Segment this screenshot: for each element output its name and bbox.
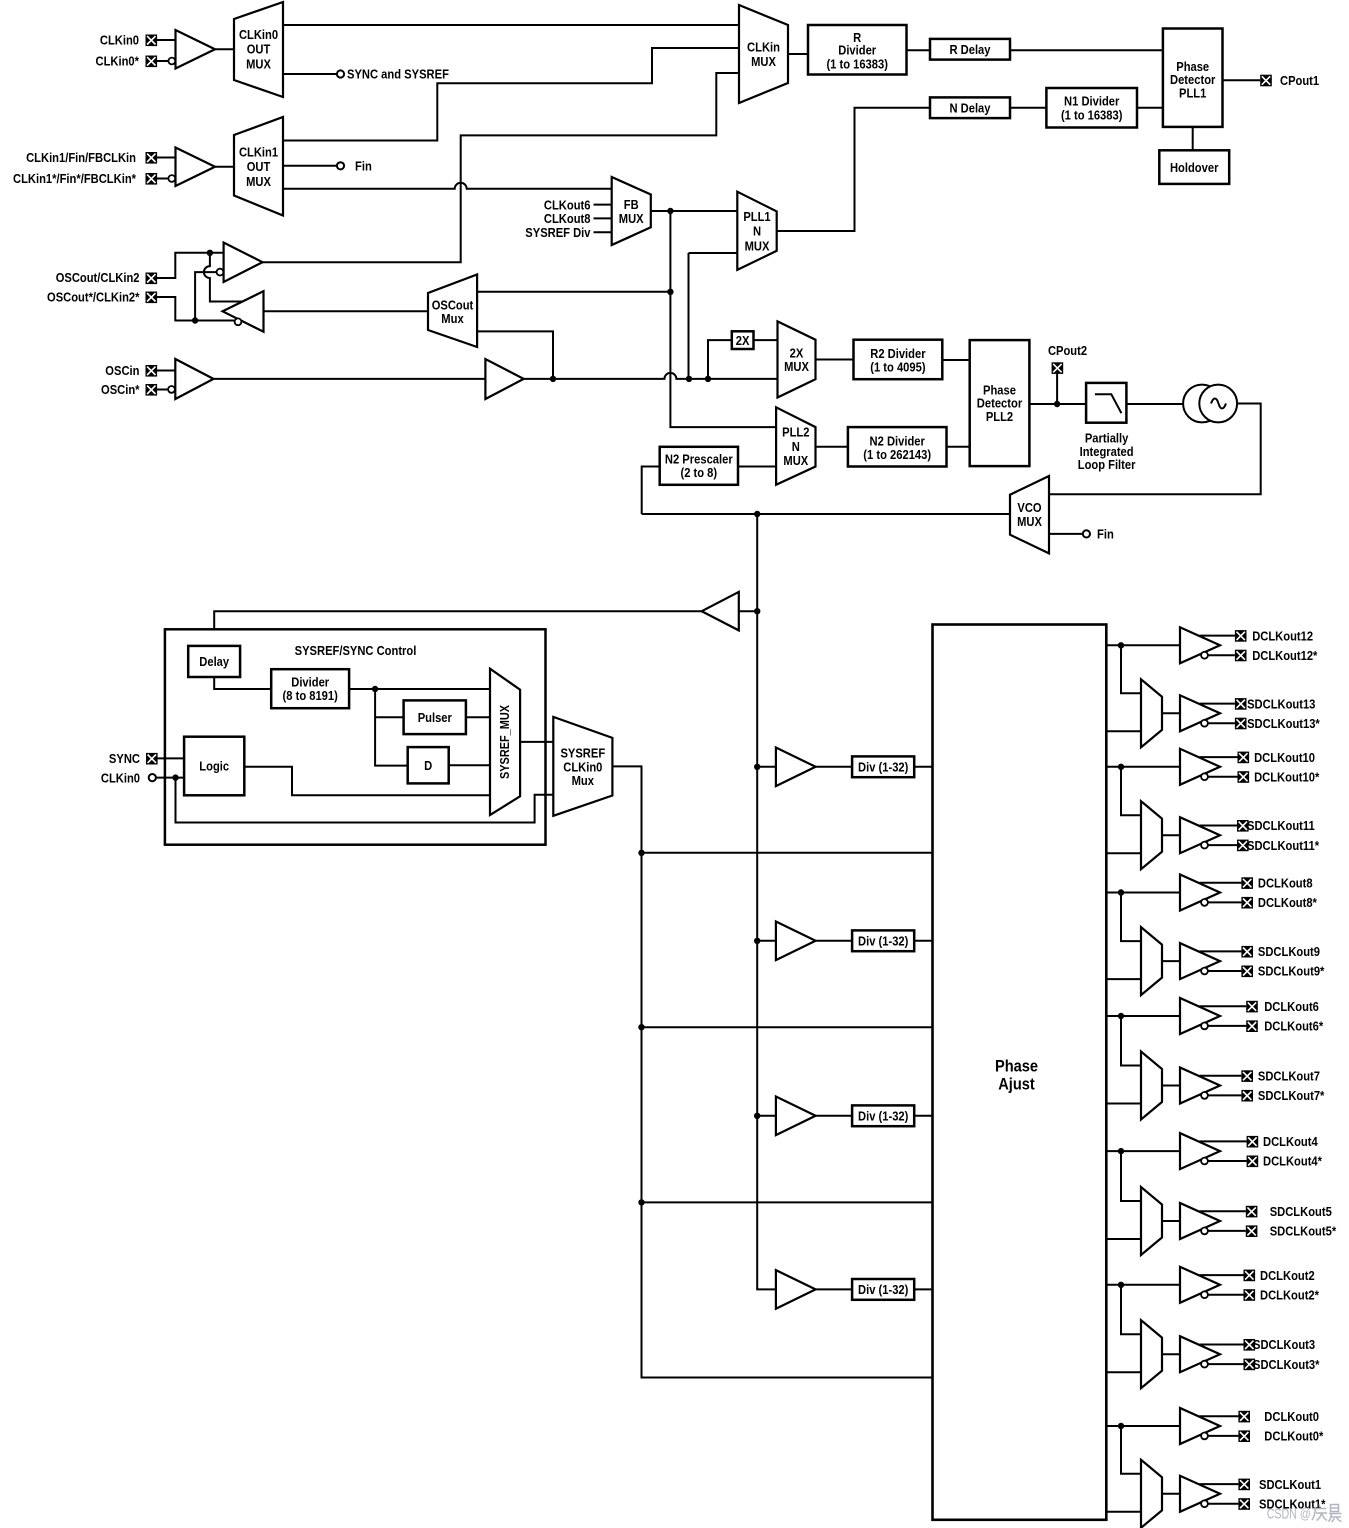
wire N2 Prescaler to PLL2 N MUX xyxy=(738,466,776,468)
mux PLL1 N MUX xyxy=(737,192,776,270)
wire CLKin0 OUT MUX top output to CLKin MUX xyxy=(283,24,739,26)
SYSREF/SYNC Control box xyxy=(165,629,546,844)
wire DCLKout8* negative output xyxy=(1208,901,1241,903)
wire FB MUX output to PLL1 N MUX xyxy=(651,210,738,212)
loop filter block xyxy=(1086,383,1126,423)
terminal Fin xyxy=(337,159,372,174)
svg-text:DCLKout12*: DCLKout12* xyxy=(1252,648,1318,663)
svg-text:OSCout*/CLKin2*: OSCout*/CLKin2* xyxy=(47,290,140,305)
wire Pulser to SYSREF_MUX xyxy=(466,716,490,718)
svg-text:SDCLKout5: SDCLKout5 xyxy=(1270,1204,1332,1219)
buffer SDCLKout9 xyxy=(1180,943,1220,979)
pad SDCLKout7* xyxy=(1241,1088,1325,1103)
pad CLKin0 xyxy=(100,33,157,48)
wire DCLKout10* negative output xyxy=(1208,776,1237,778)
Holdover xyxy=(1159,150,1229,184)
buffer SYSREF feed (left pointing) xyxy=(702,592,758,631)
mux SDCLKout1 xyxy=(1141,1460,1162,1528)
Div (1-32) row 2 xyxy=(852,930,914,951)
wire Div (1-32) row 2 to Phase Ajust xyxy=(914,940,932,942)
wire SYNC and SYSREF output xyxy=(283,73,337,75)
svg-text:SDCLKout11*: SDCLKout11* xyxy=(1247,838,1320,853)
wire OSCin pad to buffer xyxy=(157,370,176,372)
svg-text:(1 to 16383): (1 to 16383) xyxy=(1061,107,1123,122)
wire VCO output to VCO MUX xyxy=(1049,404,1261,495)
wire SDCLKout11 positive output xyxy=(1200,825,1238,827)
pad DCLKout4* xyxy=(1247,1154,1323,1169)
pad DCLKout8 xyxy=(1241,876,1312,891)
mux SDCLKout9 xyxy=(1141,927,1162,995)
wire buffer to CLKin1 OUT MUX xyxy=(215,166,234,168)
svg-text:CLKout8: CLKout8 xyxy=(544,211,591,226)
buffer DCLKout4 xyxy=(1180,1133,1220,1169)
svg-text:CPout2: CPout2 xyxy=(1048,343,1087,358)
wire distribution bus vertical xyxy=(757,514,776,1289)
R2 Divider (1 to 4095) xyxy=(854,340,943,380)
terminal Fin (VCO MUX) xyxy=(1083,527,1114,542)
svg-text:PLL2: PLL2 xyxy=(782,425,809,440)
junction on CLKin2 input wire xyxy=(207,250,213,256)
wire DCLKout4* negative output xyxy=(1208,1160,1247,1162)
flip-flop D xyxy=(408,747,449,783)
wire VCO MUX output / distribution net xyxy=(642,513,1010,515)
pad SDCLKout9* xyxy=(1241,964,1325,979)
wire Phase Ajust to DCLKout12 buffer xyxy=(1106,644,1180,646)
wire DCLKout12* negative output xyxy=(1208,654,1235,656)
Logic xyxy=(184,737,244,796)
Pulser xyxy=(404,700,466,734)
svg-text:CLKin0: CLKin0 xyxy=(239,27,278,42)
terminal SYNC and SYSREF xyxy=(337,67,449,82)
svg-text:DCLKout2: DCLKout2 xyxy=(1260,1268,1315,1283)
buffer SDCLKout1 xyxy=(1180,1476,1220,1512)
svg-text:CLKin0: CLKin0 xyxy=(100,33,139,48)
wire CLKin0 pad to buffer xyxy=(157,39,176,41)
wire Phase Ajust to DCLKout6 buffer xyxy=(1106,1015,1180,1017)
svg-text:MUX: MUX xyxy=(751,54,776,69)
junction bus to divider row 3 xyxy=(754,1113,760,1119)
wire DCLKout8 net to SDCLKout9 mux xyxy=(1121,893,1141,942)
wire SDCLKout13* negative output xyxy=(1208,722,1235,724)
wire N2 Divider to Phase Detector PLL2 xyxy=(947,446,970,448)
svg-text:(2 to 8): (2 to 8) xyxy=(681,465,718,480)
wire Phase Detector PLL1 to Holdover xyxy=(1192,127,1194,150)
buffer SDCLKout11 xyxy=(1180,817,1220,853)
wire SDCLKout3* negative output xyxy=(1208,1363,1243,1365)
stub CLKout6 input xyxy=(544,197,612,212)
wire Phase Ajust to SDCLKout7 mux xyxy=(1106,1103,1141,1105)
svg-text:Phase: Phase xyxy=(995,1056,1038,1075)
wire CLKin0* pad to buffer bubble xyxy=(157,60,169,62)
svg-text:SDCLKout9: SDCLKout9 xyxy=(1258,944,1320,959)
wire DCLKout0 net to SDCLKout1 mux xyxy=(1121,1426,1141,1474)
wire OSCout Mux output to OSCout buffer xyxy=(264,310,429,312)
Phase Detector PLL1 xyxy=(1163,29,1223,127)
wire R Divider to R Delay xyxy=(907,49,931,51)
svg-text:SDCLKout13: SDCLKout13 xyxy=(1247,696,1315,711)
junction DCLKout12 net xyxy=(1118,642,1124,648)
input buffer CLKin0 xyxy=(168,30,215,69)
svg-text:DCLKout12: DCLKout12 xyxy=(1252,628,1313,643)
wire SYSREF row 2 xyxy=(642,1026,933,1028)
wire CLKin1 OUT MUX bottom output to FB MUX (hops over vertical) xyxy=(283,183,612,189)
buffer DCLKout10 xyxy=(1180,749,1220,785)
wire R2 Divider to Phase Detector PLL2 xyxy=(942,359,969,361)
wire D to SYSREF_MUX xyxy=(449,764,490,766)
pad DCLKout6* xyxy=(1246,1019,1324,1034)
svg-text:SYSREF Div: SYSREF Div xyxy=(525,225,591,240)
wire bus to buffer row 1 xyxy=(757,766,776,768)
buffer SDCLKout7 xyxy=(1180,1068,1220,1104)
svg-text:CLKin1*/Fin*/FBCLKin*: CLKin1*/Fin*/FBCLKin* xyxy=(13,171,137,186)
wire buffer to Div (1-32) row 2 xyxy=(816,940,853,942)
wire FB net vertical to PLL2 N MUX input 1 xyxy=(670,211,776,427)
pad OSCin* xyxy=(101,382,157,397)
mux SDCLKout13 xyxy=(1141,679,1162,747)
wire loop filter to VCO xyxy=(1126,403,1183,405)
mux OSCout Mux xyxy=(428,275,477,348)
junction divider output xyxy=(372,686,378,692)
svg-text:SDCLKout11: SDCLKout11 xyxy=(1247,818,1315,833)
junction DCLKout10 net xyxy=(1118,764,1124,770)
svg-text:Logic: Logic xyxy=(199,759,229,774)
wire CLKin0 bypass to SYSREF CLKin0 Mux xyxy=(176,778,554,823)
pad SDCLKout9 xyxy=(1241,944,1320,959)
pad DCLKout8* xyxy=(1241,895,1317,910)
wire SDCLKout7* negative output xyxy=(1208,1094,1241,1096)
svg-text:OUT: OUT xyxy=(247,42,271,57)
wire bus to buffer row 2 xyxy=(757,940,776,942)
pad SDCLKout1* xyxy=(1238,1496,1326,1511)
R Divider (1 to 16383) xyxy=(808,25,907,75)
Div (1-32) row 1 xyxy=(852,756,914,777)
buffer DCLKout12 xyxy=(1180,627,1220,663)
svg-text:PLL1: PLL1 xyxy=(743,209,770,224)
buffer divider row 3 xyxy=(776,1097,816,1136)
svg-text:SDCLKout3*: SDCLKout3* xyxy=(1253,1357,1320,1372)
svg-text:(1 to 4095): (1 to 4095) xyxy=(870,360,925,375)
junction on CLKin2* wire xyxy=(192,317,198,323)
svg-text:Ajust: Ajust xyxy=(998,1074,1035,1093)
svg-text:Loop Filter: Loop Filter xyxy=(1078,457,1136,472)
wire SDCLKout11 mux to buffer xyxy=(1162,834,1180,836)
mux PLL2 N MUX xyxy=(776,407,815,485)
wire Phase Ajust to DCLKout10 buffer xyxy=(1106,766,1180,768)
svg-text:N: N xyxy=(792,439,800,454)
wire DCLKout6 positive output xyxy=(1200,1005,1247,1007)
wire DCLKout6* negative output xyxy=(1208,1025,1246,1027)
junction OSCin tap xyxy=(550,376,556,382)
svg-text:OUT: OUT xyxy=(247,159,271,174)
pad CLKin1/Fin/FBCLKin xyxy=(26,150,157,165)
buffer SDCLKout13 xyxy=(1180,695,1220,731)
pad CPout2 xyxy=(1048,343,1087,374)
N1 Divider (1 to 16383) xyxy=(1046,88,1137,128)
wire divider branch to Pulser and D xyxy=(375,689,408,766)
buffer DCLKout6 xyxy=(1180,998,1220,1034)
Phase Detector PLL2 xyxy=(970,340,1030,466)
wire Div (1-32) row 3 to Phase Ajust xyxy=(914,1115,932,1117)
N2 Prescaler (2 to 8) xyxy=(660,447,738,485)
wire buffer to Div (1-32) row 4 xyxy=(816,1288,853,1290)
svg-text:DCLKout8: DCLKout8 xyxy=(1258,876,1313,891)
svg-text:CLKin1/Fin/FBCLKin: CLKin1/Fin/FBCLKin xyxy=(26,150,136,165)
wire OSCout Mux input 1 from FB net xyxy=(477,291,670,293)
svg-text:Fin: Fin xyxy=(1097,527,1114,542)
buffer SDCLKout5 xyxy=(1180,1203,1220,1239)
pad DCLKout6 xyxy=(1246,999,1319,1014)
svg-text:DCLKout10: DCLKout10 xyxy=(1254,750,1315,765)
svg-text:FB: FB xyxy=(624,197,639,212)
wire Div (1-32) row 4 to Phase Ajust xyxy=(914,1288,932,1290)
wire SDCLKout9* negative output xyxy=(1208,970,1241,972)
wire CLKin1* pad to buffer bubble xyxy=(157,178,169,180)
svg-text:SDCLKout9*: SDCLKout9* xyxy=(1258,964,1325,979)
svg-text:Div (1-32): Div (1-32) xyxy=(858,760,908,775)
Div (1-32) row 3 xyxy=(852,1105,914,1126)
Divider (8 to 8191) xyxy=(271,669,349,708)
stub SYSREF Div input xyxy=(525,225,611,240)
wire Phase Ajust to DCLKout4 buffer xyxy=(1106,1150,1180,1152)
wire SDCLKout3 positive output xyxy=(1200,1344,1244,1346)
wire DCLKout4 net to SDCLKout5 mux xyxy=(1121,1151,1141,1201)
doubler 2X xyxy=(732,331,754,349)
svg-text:DCLKout2*: DCLKout2* xyxy=(1260,1287,1320,1302)
stub CLKout8 input xyxy=(544,211,612,226)
pad DCLKout4 xyxy=(1247,1134,1319,1149)
svg-text:OSCin*: OSCin* xyxy=(101,382,140,397)
Phase Ajust block xyxy=(933,625,1107,1520)
wire bus to buffer row 3 xyxy=(757,1115,776,1117)
svg-text:MUX: MUX xyxy=(783,453,808,468)
watermark CSDN xyxy=(1267,1505,1342,1523)
svg-text:OSCout/CLKin2: OSCout/CLKin2 xyxy=(56,270,140,285)
svg-text:Fin: Fin xyxy=(355,159,372,174)
wire Fin input to VCO MUX xyxy=(1049,533,1083,535)
mux 2X MUX xyxy=(778,321,816,397)
pad DCLKout2 xyxy=(1244,1268,1315,1283)
wire SDCLKout1* negative output xyxy=(1208,1503,1238,1505)
wire Phase Ajust to SDCLKout1 mux xyxy=(1106,1511,1141,1513)
wire Phase Ajust to DCLKout0 buffer xyxy=(1106,1425,1180,1427)
buffer DCLKout0 xyxy=(1180,1408,1220,1444)
wire DCLKout12 positive output xyxy=(1200,635,1235,637)
R Delay xyxy=(930,39,1010,60)
wire buffer to Div (1-32) row 1 xyxy=(816,766,853,768)
wire SDCLKout13 mux to buffer xyxy=(1162,712,1180,714)
junction DCLKout6 net xyxy=(1118,1013,1124,1019)
wire DCLKout2* negative output xyxy=(1208,1294,1243,1296)
svg-text:(1 to 262143): (1 to 262143) xyxy=(863,447,931,462)
svg-text:2X: 2X xyxy=(736,333,750,348)
input buffer OSCin xyxy=(168,359,213,399)
pad DCLKout12 xyxy=(1235,628,1313,643)
pad OSCout*/CLKin2* xyxy=(47,290,157,305)
wire Phase Ajust to DCLKout8 buffer xyxy=(1106,892,1180,894)
wire to CPout2 pad xyxy=(1056,373,1058,404)
wire OSCin net to 2X MUX (hops over FB vertical) xyxy=(524,373,778,379)
wire 2X to 2X MUX xyxy=(754,339,778,341)
junction OSCin to 2X branch xyxy=(705,376,711,382)
terminal CLKin0 (sync input) xyxy=(101,770,156,785)
svg-text:MUX: MUX xyxy=(246,174,271,189)
wire SYSREF feed to Delay xyxy=(214,611,702,646)
pad SDCLKout3* xyxy=(1244,1357,1321,1372)
wire Phase Ajust to SDCLKout9 mux xyxy=(1106,978,1141,980)
svg-text:DCLKout6*: DCLKout6* xyxy=(1264,1019,1324,1034)
svg-text:DCLKout4*: DCLKout4* xyxy=(1263,1154,1323,1169)
junction OSCin to PLL1 N MUX branch xyxy=(686,376,692,382)
buffer OSCin second stage xyxy=(485,359,523,399)
wire SDCLKout13 positive output xyxy=(1200,703,1235,705)
wire PLL2 charge pump output to loop filter xyxy=(1029,403,1086,405)
svg-text:Delay: Delay xyxy=(199,654,229,669)
svg-text:N: N xyxy=(753,224,761,239)
wire CLKin2 buffer output to CLKin MUX input 3 xyxy=(263,73,740,262)
pad DCLKout10 xyxy=(1238,750,1316,765)
wire OSCin to 2X xyxy=(708,340,732,379)
mux SDCLKout5 xyxy=(1141,1187,1162,1255)
svg-text:SDCLKout7: SDCLKout7 xyxy=(1258,1069,1320,1084)
mux SDCLKout3 xyxy=(1141,1320,1162,1388)
pad SDCLKout5 xyxy=(1246,1204,1332,1219)
junction CPout2 xyxy=(1054,401,1060,407)
mux CLKin1 OUT MUX xyxy=(234,117,283,216)
svg-text:CLKin0*: CLKin0* xyxy=(96,54,140,69)
buffer divider row 1 xyxy=(776,748,816,787)
buffer DCLKout8 xyxy=(1180,875,1220,911)
wire feedback to N2 Prescaler xyxy=(642,467,660,515)
svg-text:Div (1-32): Div (1-32) xyxy=(858,934,908,949)
svg-text:MUX: MUX xyxy=(1017,514,1042,529)
buffer divider row 4 xyxy=(776,1270,816,1309)
pad SDCLKout11 xyxy=(1237,818,1315,833)
svg-text:SDCLKout7*: SDCLKout7* xyxy=(1258,1088,1325,1103)
wire Div (1-32) row 1 to Phase Ajust xyxy=(914,766,932,768)
mux SYSREF_MUX xyxy=(490,669,520,815)
buffer SDCLKout3 xyxy=(1180,1336,1220,1372)
wire SDCLKout5 positive output xyxy=(1200,1210,1246,1212)
svg-text:Holdover: Holdover xyxy=(1170,160,1219,175)
svg-text:PLL1: PLL1 xyxy=(1179,85,1206,100)
wire CLKin1 OUT MUX top output to CLKin MUX input 2 xyxy=(283,48,739,141)
output buffer OSCout xyxy=(223,291,264,332)
svg-text:SYSREF/SYNC Control: SYSREF/SYNC Control xyxy=(295,643,417,658)
wire Logic output to SYSREF_MUX xyxy=(244,767,490,796)
wire buffer to Div (1-32) row 3 xyxy=(816,1115,853,1117)
svg-text:D: D xyxy=(424,758,432,773)
svg-text:DCLKout8*: DCLKout8* xyxy=(1258,895,1318,910)
svg-text:Pulser: Pulser xyxy=(418,710,452,725)
svg-text:DCLKout0: DCLKout0 xyxy=(1264,1409,1319,1424)
svg-text:CLKin0: CLKin0 xyxy=(101,770,140,785)
svg-text:DCLKout0*: DCLKout0* xyxy=(1264,1429,1324,1444)
svg-text:R Delay: R Delay xyxy=(950,42,992,57)
pad DCLKout12* xyxy=(1235,648,1318,663)
wire OSCout/CLKin2 pad to buffer input xyxy=(157,253,224,278)
wire N1 Divider to Phase Detector PLL1 xyxy=(1137,107,1163,109)
wire Delay to Divider xyxy=(214,677,271,689)
wire PLL1 N MUX input 2 from OSCin xyxy=(689,253,738,379)
wire DCLKout0 positive output xyxy=(1200,1415,1239,1417)
svg-text:SDCLKout5*: SDCLKout5* xyxy=(1270,1224,1337,1239)
svg-text:SYSREF_MUX: SYSREF_MUX xyxy=(497,705,512,779)
wire DCLKout0* negative output xyxy=(1208,1435,1238,1437)
junction SYSREF row 3 xyxy=(638,1199,644,1205)
svg-text:SYNC and SYSREF: SYNC and SYSREF xyxy=(347,67,449,82)
pad CLKin0* xyxy=(96,54,158,69)
Div (1-32) row 4 xyxy=(852,1279,914,1300)
svg-text:Div (1-32): Div (1-32) xyxy=(858,1282,908,1297)
wire DCLKout8 positive output xyxy=(1200,882,1242,884)
wire Phase Ajust to SDCLKout3 mux xyxy=(1106,1371,1141,1373)
svg-text:N Delay: N Delay xyxy=(950,101,992,116)
mux SYSREF CLKin0 Mux xyxy=(553,717,612,816)
wire OSCin* pad to buffer bubble xyxy=(157,389,168,391)
svg-text:MUX: MUX xyxy=(246,57,271,72)
svg-text:CLKin1: CLKin1 xyxy=(239,145,278,160)
svg-text:PLL2: PLL2 xyxy=(986,409,1013,424)
junction DCLKout4 net xyxy=(1118,1148,1124,1154)
mux FB MUX xyxy=(612,177,651,245)
junction DCLKout2 net xyxy=(1118,1282,1124,1288)
pad SDCLKout5* xyxy=(1246,1224,1337,1239)
wire Fin output xyxy=(283,165,337,167)
wire SYSREF_MUX to SYSREF CLKin0 Mux xyxy=(520,741,553,743)
wire SYSREF row 1 xyxy=(642,852,933,854)
wire DCLKout10 net to SDCLKout11 mux xyxy=(1121,767,1141,815)
svg-text:(8 to 8191): (8 to 8191) xyxy=(283,688,338,703)
wire DCLKout2 net to SDCLKout3 mux xyxy=(1121,1285,1141,1334)
input buffer CLKin1 xyxy=(168,148,215,187)
wire DCLKout2 positive output xyxy=(1200,1274,1244,1276)
wire PLL1 N MUX output to N Delay xyxy=(777,108,930,231)
junction FB net to OSCout Mux xyxy=(667,289,673,295)
wire CLKin0 to Logic xyxy=(156,777,184,779)
pad DCLKout0 xyxy=(1238,1409,1319,1424)
svg-text:SDCLKout3: SDCLKout3 xyxy=(1253,1337,1315,1352)
junction bus to divider row 2 xyxy=(754,938,760,944)
svg-text:Mux: Mux xyxy=(572,773,595,788)
wire PLL2 N MUX to N2 Divider xyxy=(816,446,848,448)
wire SDCLKout1 mux to buffer xyxy=(1162,1493,1180,1495)
svg-text:SDCLKout1: SDCLKout1 xyxy=(1259,1477,1321,1492)
svg-text:MUX: MUX xyxy=(745,238,770,253)
svg-text:CLKin: CLKin xyxy=(747,40,780,55)
svg-text:OSCin: OSCin xyxy=(105,363,139,378)
wire SDCLKout9 mux to buffer xyxy=(1162,960,1180,962)
wire Phase Ajust to SDCLKout5 mux xyxy=(1106,1238,1141,1240)
svg-text:MUX: MUX xyxy=(784,359,809,374)
svg-text:DCLKout10*: DCLKout10* xyxy=(1254,769,1320,784)
mux CLKin0 OUT MUX xyxy=(234,2,283,97)
wire SYSREF distribution vertical xyxy=(612,766,932,1377)
wire Phase Ajust to DCLKout2 buffer xyxy=(1106,1284,1180,1286)
pad DCLKout2* xyxy=(1244,1287,1320,1302)
wire SDCLKout7 mux to buffer xyxy=(1162,1085,1180,1087)
mux CLKin MUX xyxy=(739,5,788,103)
wire DCLKout4 positive output xyxy=(1200,1140,1247,1142)
pad OSCout/CLKin2 xyxy=(56,270,157,285)
junction SYSREF row 2 xyxy=(638,1024,644,1030)
wire OSCout*/CLKin2* pad to output-buffer bubble xyxy=(157,297,235,321)
junction CLKin0 bypass xyxy=(172,774,178,780)
wire inverted net to input-buffer bubble xyxy=(195,272,218,320)
wire N Delay to N1 Divider xyxy=(1010,107,1046,109)
wire SDCLKout5 mux to buffer xyxy=(1162,1220,1180,1222)
wire DCLKout10 positive output xyxy=(1200,756,1238,758)
Delay xyxy=(188,646,240,677)
